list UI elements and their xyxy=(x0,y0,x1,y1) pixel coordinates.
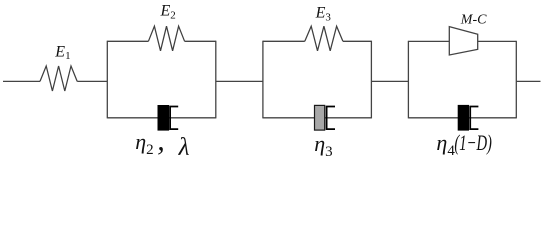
wire box2 top-right segment xyxy=(343,40,372,42)
wire box1 right vertical xyxy=(215,41,217,119)
wire box1 top-left segment xyxy=(107,40,148,42)
wire box3 left vertical xyxy=(407,41,409,119)
wire box1 to box2 xyxy=(216,80,263,82)
wire box3 top-right segment xyxy=(478,40,517,42)
svg-text:E1: E1 xyxy=(54,43,70,62)
wire box3 bottom edge xyxy=(408,117,516,119)
dashpot eta3 cylinder bracket xyxy=(327,107,335,130)
spring E2 xyxy=(148,26,184,51)
wire box2 top-left segment xyxy=(263,40,305,42)
svg-text:η4(1−D): η4(1−D) xyxy=(436,130,492,159)
wire box2 left vertical xyxy=(262,41,264,119)
svg-text:M-C: M-C xyxy=(460,12,487,27)
svg-text:λ: λ xyxy=(178,134,190,161)
wire box1 left vertical xyxy=(106,41,108,119)
dashpot eta4 piston (black) xyxy=(458,105,468,130)
wire box1 bottom edge xyxy=(107,117,216,119)
svg-text:E3: E3 xyxy=(315,5,332,24)
dashpot eta2 piston (black) xyxy=(158,106,169,131)
dashpot eta2 cylinder bracket xyxy=(170,107,178,130)
spring E3 xyxy=(305,26,343,51)
wire box1 top-right segment xyxy=(185,40,216,42)
svg-text:,: , xyxy=(157,124,165,157)
svg-text:η2: η2 xyxy=(135,129,153,158)
dashpot eta3 piston (gray) xyxy=(315,105,325,130)
wire right lead xyxy=(516,80,540,82)
wire box2 bottom edge xyxy=(263,117,372,119)
wire box3 top-left segment xyxy=(408,40,449,42)
spring E1 xyxy=(40,66,77,91)
dashpot eta4 cylinder bracket xyxy=(470,107,478,130)
M-C slider U1 (trapezoid) xyxy=(449,27,477,55)
wire E1 to box1 xyxy=(77,80,107,82)
svg-text:η3: η3 xyxy=(314,131,332,160)
wire box3 right vertical xyxy=(515,41,517,119)
wire box2 right vertical xyxy=(370,41,372,119)
wire box2 to box3 xyxy=(371,80,408,82)
svg-text:E2: E2 xyxy=(160,3,176,22)
wire left lead xyxy=(3,80,40,82)
